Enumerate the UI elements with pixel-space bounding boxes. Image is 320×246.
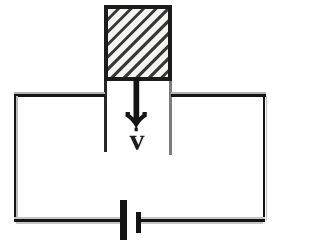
conducting bar B1 (hatched block) xyxy=(104,5,172,81)
wire right side xyxy=(263,94,266,222)
label v xyxy=(124,128,150,154)
velocity arrow xyxy=(120,75,156,135)
battery V1 short plate xyxy=(136,212,141,233)
rail right xyxy=(169,81,173,155)
rail left xyxy=(104,81,107,152)
battery V1 long plate xyxy=(120,200,127,240)
wire bottom-left segment xyxy=(14,217,120,219)
svg-text:v: v xyxy=(129,128,144,154)
wire top-left segment xyxy=(14,92,105,94)
wire bottom-right segment xyxy=(140,217,265,219)
wire top-right segment xyxy=(171,92,266,94)
wire left side xyxy=(14,94,17,222)
